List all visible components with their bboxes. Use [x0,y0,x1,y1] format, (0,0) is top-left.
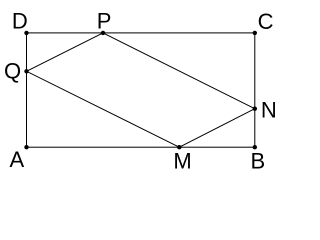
node D [24,31,28,35]
node P [101,31,105,35]
node A [24,145,28,149]
svg-text:P: P [97,9,112,34]
node B [253,145,257,149]
wire parallelogram QPNM [27,33,255,147]
node rectangle ABCD [27,33,255,147]
node Q [24,69,28,73]
svg-text:N: N [261,98,277,123]
node C [253,31,257,35]
svg-text:Q: Q [4,59,21,84]
wire [0,0,291,177]
node M [177,145,181,149]
svg-text:B: B [250,149,265,174]
svg-text:A: A [9,147,24,172]
svg-text:M: M [173,148,191,173]
svg-text:D: D [12,9,28,34]
svg-text:C: C [258,9,274,34]
node N [253,107,257,111]
